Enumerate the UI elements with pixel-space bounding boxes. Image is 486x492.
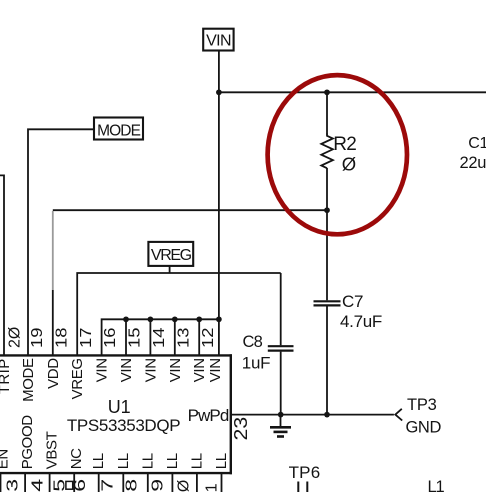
node bus pin14 bbox=[148, 316, 154, 322]
svg-text:6: 6 bbox=[72, 479, 90, 492]
svg-text:4: 4 bbox=[29, 479, 47, 492]
node bus pin15 bbox=[123, 316, 129, 322]
svg-text:22uF: 22uF bbox=[460, 154, 486, 172]
svg-text:17: 17 bbox=[76, 328, 95, 348]
annotation red ellipse bbox=[268, 75, 407, 234]
NC marker square near pin 6 bbox=[66, 481, 73, 489]
svg-text:TRIP: TRIP bbox=[0, 358, 13, 394]
svg-text:18: 18 bbox=[52, 328, 71, 348]
svg-text:16: 16 bbox=[100, 328, 119, 348]
net label MODE bbox=[94, 118, 143, 140]
svg-text:TPS53353DQP: TPS53353DQP bbox=[67, 416, 180, 435]
wire C8 to ground bus bbox=[280, 352, 282, 415]
svg-text:9: 9 bbox=[149, 479, 167, 492]
capacitor C8 plates bbox=[268, 345, 294, 347]
svg-text:C8: C8 bbox=[243, 333, 263, 351]
svg-text:LL: LL bbox=[139, 453, 156, 469]
svg-text:VIN: VIN bbox=[142, 358, 159, 382]
svg-text:19: 19 bbox=[27, 328, 46, 348]
svg-text:8: 8 bbox=[123, 479, 141, 492]
top pin numbers rotated bbox=[7, 327, 217, 348]
svg-text:VIN: VIN bbox=[167, 358, 184, 382]
wire pin12 stub bbox=[198, 319, 200, 355]
wire VDD horizontal bbox=[53, 209, 327, 211]
testpoint TP6 symbol bbox=[297, 482, 299, 492]
node bus pin11 bbox=[216, 316, 222, 322]
svg-text:5: 5 bbox=[51, 479, 69, 492]
node R2 top bbox=[324, 89, 330, 95]
wire TRIP from left edge bbox=[0, 175, 4, 355]
svg-text:VREG: VREG bbox=[151, 247, 192, 264]
svg-text:NC: NC bbox=[68, 448, 85, 469]
node bus pin12 bbox=[196, 316, 202, 322]
svg-text:7: 7 bbox=[99, 479, 117, 492]
svg-text:14: 14 bbox=[149, 327, 168, 348]
svg-text:PwPd: PwPd bbox=[188, 406, 229, 425]
wire VIN vertical (VIN label to pin 11) bbox=[218, 50, 220, 355]
svg-text:1Ø: 1Ø bbox=[175, 480, 192, 492]
svg-text:1uF: 1uF bbox=[242, 353, 270, 372]
wire node to C7 bbox=[326, 210, 328, 300]
wire ground bus pin23 to TP3 bbox=[231, 414, 394, 416]
svg-text:TP6: TP6 bbox=[289, 463, 321, 482]
svg-text:VDD: VDD bbox=[45, 358, 62, 389]
svg-text:VIN: VIN bbox=[206, 33, 231, 50]
svg-text:LL: LL bbox=[213, 453, 230, 469]
svg-text:MODE: MODE bbox=[20, 358, 37, 402]
svg-text:12: 12 bbox=[198, 328, 217, 348]
svg-text:U1: U1 bbox=[108, 397, 131, 417]
svg-text:2Ø: 2Ø bbox=[7, 327, 24, 348]
svg-text:4.7uF: 4.7uF bbox=[340, 312, 382, 331]
svg-text:11: 11 bbox=[204, 483, 221, 492]
wire VDD vertical black part bbox=[52, 290, 54, 355]
svg-text:MODE: MODE bbox=[97, 122, 140, 139]
svg-text:L1: L1 bbox=[428, 478, 445, 492]
bottom pin names rotated bbox=[0, 415, 230, 470]
node R2 bottom bbox=[324, 207, 330, 213]
IC U1 bottom pin stubs bbox=[0, 474, 2, 492]
testpoint TP3 symbol bbox=[395, 409, 402, 421]
svg-text:15: 15 bbox=[125, 328, 144, 348]
wire pin13 stub bbox=[174, 319, 176, 355]
wire pin14 stub bbox=[149, 319, 151, 355]
resistor R2 zigzag bbox=[321, 134, 333, 169]
svg-text:GND: GND bbox=[406, 419, 442, 437]
wire R2 bottom to node bbox=[326, 168, 328, 210]
node ground C8 bbox=[278, 412, 284, 418]
wire R2 branch top bbox=[326, 92, 328, 134]
svg-text:23: 23 bbox=[231, 417, 251, 441]
svg-text:C1: C1 bbox=[468, 135, 486, 152]
wire C7 to ground bus bbox=[326, 306, 328, 414]
node bus pin13 bbox=[172, 316, 178, 322]
svg-text:EN: EN bbox=[0, 449, 12, 469]
svg-text:VIN: VIN bbox=[207, 358, 224, 382]
svg-text:TP3: TP3 bbox=[407, 396, 437, 414]
IC U1 body edges bbox=[0, 354, 232, 474]
svg-text:LL: LL bbox=[188, 453, 205, 469]
top pin names rotated bbox=[0, 358, 224, 402]
svg-text:VIN: VIN bbox=[94, 358, 111, 382]
node ground C7 bbox=[324, 412, 330, 418]
ground symbol bbox=[280, 415, 282, 427]
svg-text:LL: LL bbox=[164, 453, 181, 469]
wire VREG horizontal bbox=[77, 273, 281, 355]
net label VREG bbox=[148, 242, 193, 266]
svg-text:LL: LL bbox=[115, 453, 132, 469]
capacitor C7 plates bbox=[314, 300, 341, 302]
svg-text:VIN: VIN bbox=[191, 358, 208, 382]
wire VIN horizontal to C1 bbox=[219, 91, 486, 93]
svg-text:13: 13 bbox=[174, 328, 193, 348]
wire VREG stub from label box bbox=[169, 266, 171, 273]
wire VIN pin bus bbox=[102, 319, 219, 355]
svg-text:VREG: VREG bbox=[69, 358, 86, 399]
svg-text:C7: C7 bbox=[342, 292, 363, 311]
wire VDD vertical gray part bbox=[52, 211, 54, 290]
wire pin15 stub bbox=[125, 319, 127, 355]
wire MODE bbox=[28, 129, 94, 355]
svg-text:VBST: VBST bbox=[44, 431, 61, 469]
svg-text:Ø: Ø bbox=[342, 154, 356, 175]
bottom pin numbers rotated bbox=[4, 479, 221, 492]
svg-text:VIN: VIN bbox=[118, 358, 135, 382]
svg-text:PGOOD: PGOOD bbox=[19, 415, 36, 470]
node VIN junction bbox=[216, 89, 222, 95]
svg-text:LL: LL bbox=[90, 453, 107, 469]
svg-text:R2: R2 bbox=[333, 134, 356, 155]
wire VREG down to C8 bbox=[280, 273, 282, 345]
svg-text:3: 3 bbox=[4, 479, 22, 492]
net label VIN bbox=[203, 29, 233, 51]
